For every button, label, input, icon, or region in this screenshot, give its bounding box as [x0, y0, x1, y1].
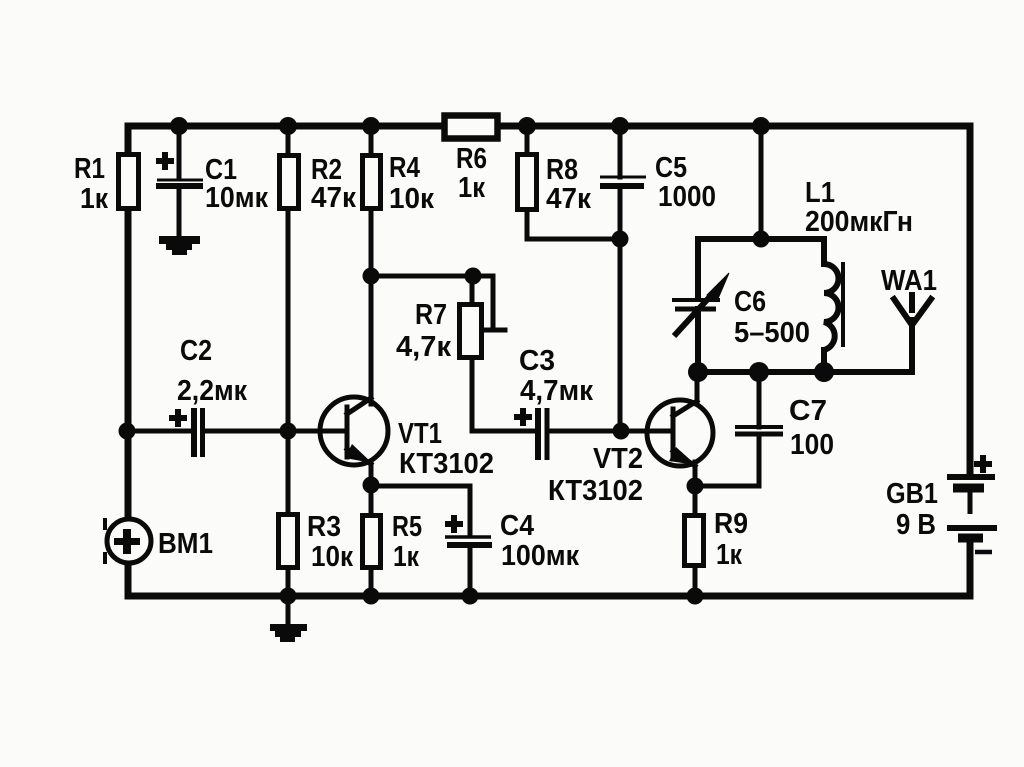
- svg-text:1к: 1к: [393, 541, 419, 573]
- svg-text:R6: R6: [456, 143, 487, 175]
- svg-text:1к: 1к: [716, 539, 742, 571]
- svg-text:4,7к: 4,7к: [396, 331, 451, 363]
- svg-text:R8: R8: [546, 154, 578, 186]
- svg-text:10мк: 10мк: [205, 182, 268, 214]
- svg-text:BM1: BM1: [158, 528, 213, 560]
- svg-text:VT2: VT2: [593, 443, 643, 475]
- svg-text:100: 100: [790, 429, 834, 461]
- svg-text:1к: 1к: [458, 172, 485, 204]
- svg-text:1000: 1000: [658, 181, 716, 213]
- svg-text:VT1: VT1: [398, 418, 442, 450]
- svg-text:L1: L1: [805, 177, 835, 209]
- svg-text:КТ3102: КТ3102: [548, 475, 643, 507]
- svg-text:47к: 47к: [311, 182, 356, 214]
- svg-text:КТ3102: КТ3102: [399, 448, 494, 480]
- svg-text:C5: C5: [655, 152, 687, 184]
- svg-text:C2: C2: [180, 335, 212, 367]
- svg-text:C4: C4: [500, 510, 534, 542]
- svg-text:2,2мк: 2,2мк: [177, 375, 247, 407]
- svg-text:R4: R4: [389, 152, 420, 184]
- svg-text:9 В: 9 В: [896, 509, 936, 541]
- svg-text:C6: C6: [734, 286, 766, 318]
- svg-text:1к: 1к: [80, 183, 108, 215]
- svg-text:10к: 10к: [389, 183, 434, 215]
- svg-text:R7: R7: [415, 299, 447, 331]
- svg-text:200мкГн: 200мкГн: [805, 206, 913, 238]
- svg-text:R9: R9: [714, 508, 748, 540]
- svg-text:C3: C3: [519, 345, 555, 377]
- svg-text:4,7мк: 4,7мк: [520, 375, 593, 407]
- svg-text:R5: R5: [392, 511, 422, 543]
- svg-text:10к: 10к: [311, 541, 353, 573]
- svg-text:100мк: 100мк: [501, 540, 579, 572]
- svg-text:WA1: WA1: [881, 265, 937, 297]
- svg-text:5–500: 5–500: [734, 317, 810, 349]
- svg-text:R3: R3: [307, 511, 341, 543]
- svg-text:47к: 47к: [546, 183, 591, 215]
- svg-text:R1: R1: [74, 153, 105, 185]
- svg-text:GB1: GB1: [886, 478, 938, 510]
- svg-text:C7: C7: [789, 395, 827, 427]
